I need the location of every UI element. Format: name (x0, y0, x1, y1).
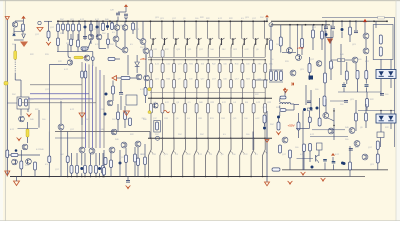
svg-text:2SC: 2SC (178, 134, 182, 136)
svg-text:2SC: 2SC (200, 134, 204, 136)
svg-text:+50V: +50V (288, 124, 295, 128)
svg-text:2SC: 2SC (125, 119, 129, 121)
svg-text:2SC: 2SC (270, 124, 274, 126)
svg-text:2SC: 2SC (85, 119, 89, 121)
svg-text:2SC: 2SC (122, 29, 126, 31)
svg-text:2SC: 2SC (112, 119, 116, 121)
svg-text:2SC: 2SC (12, 94, 16, 96)
svg-text:2SC: 2SC (60, 19, 64, 21)
svg-text:2SC: 2SC (60, 154, 64, 156)
svg-text:2SC: 2SC (222, 49, 226, 51)
svg-text:+85V: +85V (140, 58, 146, 61)
svg-text:2SC: 2SC (155, 134, 159, 136)
svg-text:2SC: 2SC (12, 44, 16, 46)
svg-text:+50V: +50V (297, 46, 304, 50)
svg-text:2SC: 2SC (258, 64, 262, 66)
svg-text:2SC: 2SC (110, 44, 114, 46)
svg-text:2SC: 2SC (260, 17, 264, 19)
svg-text:2SC: 2SC (102, 33, 106, 35)
svg-text:2SC: 2SC (140, 47, 144, 49)
